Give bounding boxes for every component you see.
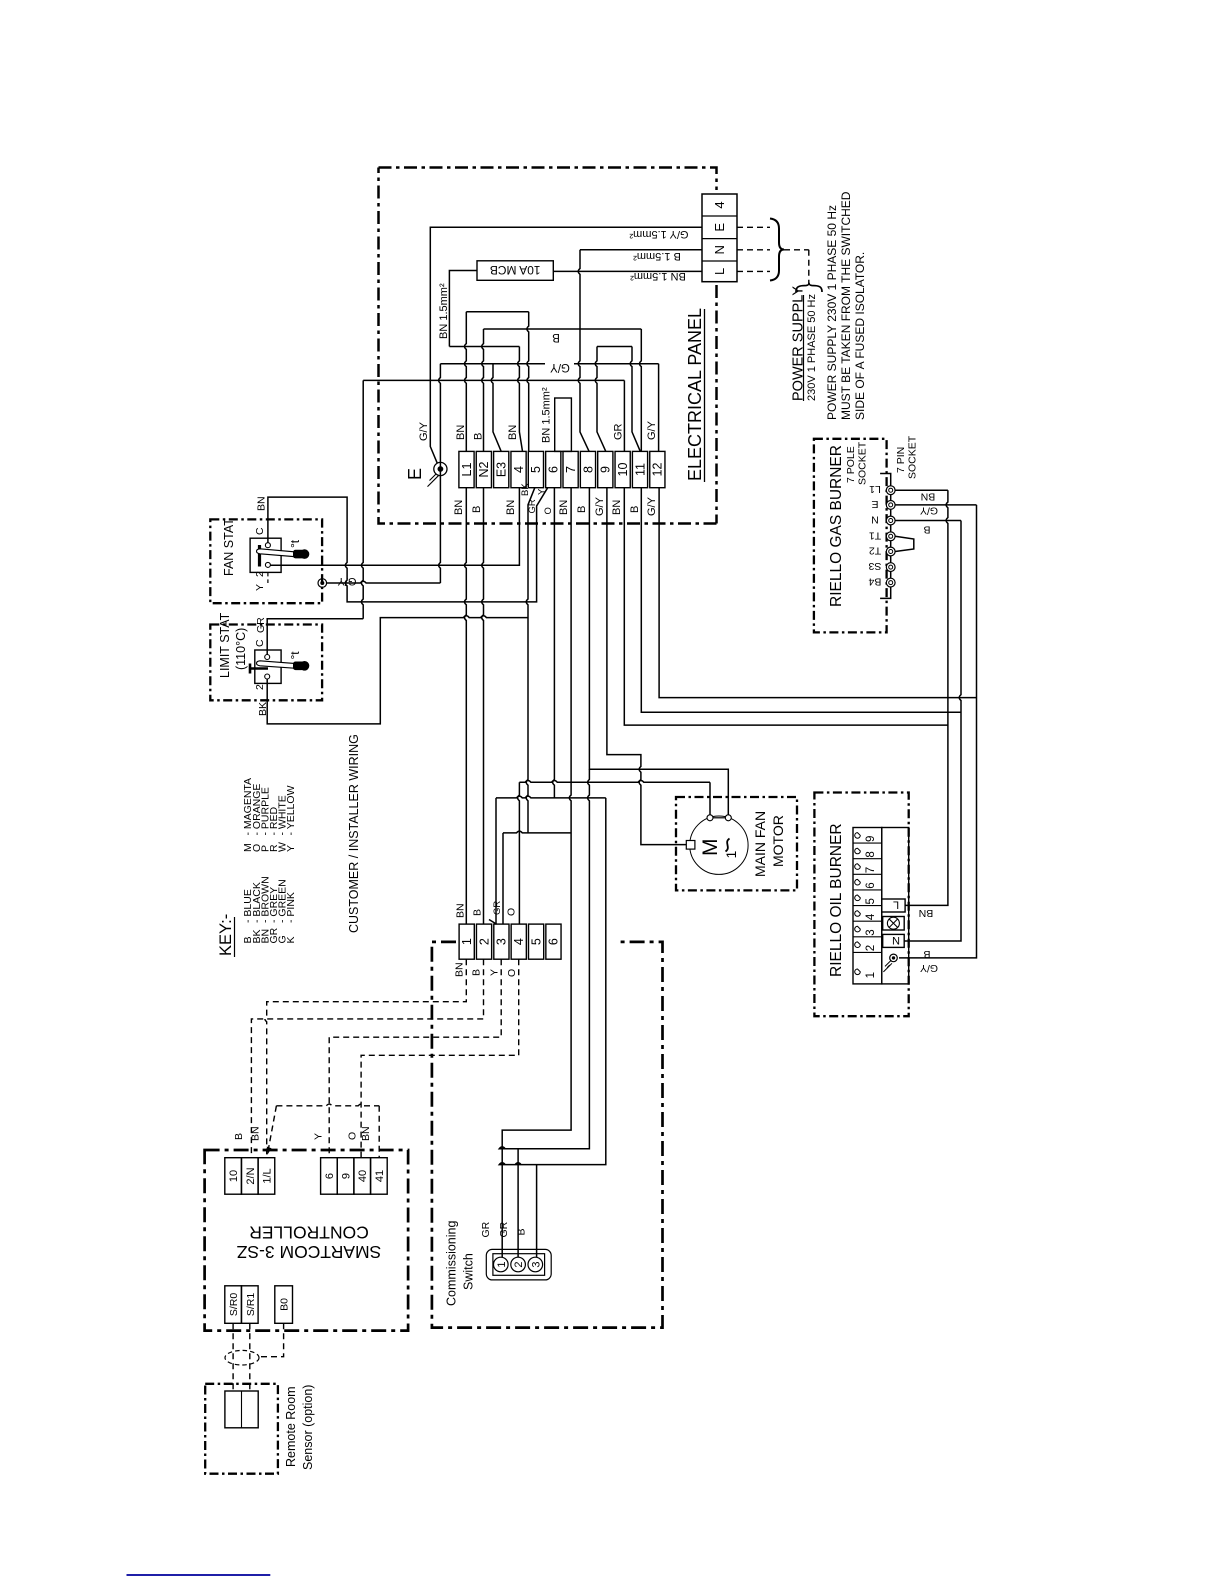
svg-text:10: 10 [616,463,630,477]
wire N2 drop from bus B [482,329,484,451]
wire terminal 10 (BN) to gas burner L1 [624,488,948,725]
svg-text:BN: BN [360,1126,372,1141]
svg-text:B: B [233,1133,245,1140]
wire h1: FAN STAT terminal 2 to terminal 4 [268,488,520,566]
svg-text:BN 1.5mm²: BN 1.5mm² [438,283,450,339]
svg-text:°t: °t [288,651,302,660]
label G/Y on earth bus [545,360,574,374]
svg-text:BN: BN [454,962,466,977]
dashed wires S/R0 S/R1 to sensor [233,1323,250,1391]
wire terminal 8 branch to commissioning switch 2 [499,769,589,1257]
commissioning switch outer [486,1249,551,1280]
wire 12 drop from bus D [658,364,660,452]
bus B neutral (N2 to 11) [484,328,642,330]
wire gas E to oil earth (G/Y vertical) [899,505,977,958]
svg-text:8: 8 [581,466,595,473]
svg-text:1: 1 [496,1261,508,1267]
wire 11 second drop from bus C right [630,347,640,452]
earth hatching [428,474,439,487]
fan stat lever and knob [257,549,295,557]
dashed wire block3 Y to controller 6 [329,959,501,1157]
dashed supply stubs from L N E [737,227,770,271]
svg-text:B0: B0 [279,1298,291,1311]
wire MCB to bus C (BN 1.5mm2) [449,271,477,347]
limit stat thermostat body [255,650,281,683]
electrical panel enclosure (dash-dot border) [379,168,717,524]
svg-text:B 1.5mm²: B 1.5mm² [633,250,681,262]
svg-text:O: O [347,1132,359,1140]
oil burner lamp cell [883,917,905,931]
svg-text:ELECTRICAL PANEL: ELECTRICAL PANEL [685,308,705,481]
svg-text:FAN STAT: FAN STAT [222,518,236,576]
svg-text:BN: BN [453,500,465,515]
svg-text:BK: BK [520,483,531,496]
underline POWER SUPPLY [803,295,805,401]
svg-text:2/N: 2/N [245,1167,257,1184]
controller terminal B0 [275,1286,293,1324]
svg-text:12: 12 [651,463,665,477]
svg-text:T1: T1 [869,529,881,541]
svg-text:1: 1 [460,938,474,945]
svg-text:BN: BN [256,496,268,511]
wire N-feed (B 1.5mm2) from terminal N to neutral bus and terminal 8 [578,250,589,452]
dashed wire block4 O to controller 40 [361,959,519,1157]
motor terminal 1 [707,815,713,821]
svg-text:1: 1 [865,972,877,978]
bus C right (8 to 11) [597,346,632,348]
svg-text:7 PIN: 7 PIN [895,447,907,473]
svg-text:MOTOR: MOTOR [770,815,786,867]
wire gas L1 to oil L (BN vertical) [905,490,948,905]
wire L1 drop below strip [465,488,467,924]
svg-text:LIMIT STAT: LIMIT STAT [218,612,232,678]
svg-text:B4: B4 [868,576,881,588]
svg-text:BN 1.5mm²: BN 1.5mm² [630,270,686,282]
svg-text:41: 41 [374,1170,386,1182]
svg-text:4: 4 [512,466,526,473]
fan stat thermostat body [250,538,281,572]
svg-text:Commissioning: Commissioning [445,1221,459,1306]
wire run y798 to block 3 and commissioning switch 3 [496,796,606,798]
earth node E (circle) [434,462,447,475]
limit stat reset bar [250,664,268,674]
wire E-feed from terminal E to earth point [430,227,702,463]
terminal strip L1 N2 E3 4-12 (panel) [459,451,474,487]
svg-text:7: 7 [564,466,578,473]
svg-text:2: 2 [254,684,266,690]
svg-text:SMARTCOM 3-SZ: SMARTCOM 3-SZ [236,1242,381,1262]
svg-text:B: B [629,506,641,513]
svg-text:RIELLO GAS BURNER: RIELLO GAS BURNER [828,445,845,607]
commissioning switch contacts 1 2 3 [494,1257,509,1272]
motor terminal 2 [725,815,731,821]
svg-text:B: B [576,506,588,513]
commissioning enclosure (dash-dot) [432,942,663,1328]
wire LIMIT STAT C to bus E via h4a [267,619,363,655]
wire run y782 terminal block 4 feed and motor [519,781,710,783]
svg-text:7 POLE: 7 POLE [845,446,857,483]
controller terminals 6 9 40 41 [321,1158,338,1195]
LIMIT STAT enclosure [210,625,322,701]
svg-text:B: B [923,948,930,960]
RIELLO GAS BURNER enclosure [814,439,887,633]
svg-text:L: L [893,899,899,911]
svg-text:B: B [472,909,484,916]
svg-text:S/R0: S/R0 [228,1293,240,1317]
svg-text:Y: Y [537,488,548,495]
cable grommet ellipse [225,1350,259,1365]
RIELLO OIL BURNER enclosure [814,793,908,1017]
svg-text:G/Y: G/Y [646,496,658,516]
bus D earth (E3 bus) [440,363,658,365]
svg-text:GR: GR [527,499,538,513]
svg-text:G/Y: G/Y [920,505,938,517]
wire BK from terminal 5 [526,488,535,833]
svg-text:3: 3 [530,1261,542,1267]
svg-text:CUSTOMER / INSTALLER WIRING: CUSTOMER / INSTALLER WIRING [347,734,361,933]
svg-text:BN: BN [919,907,934,919]
svg-text:GR: GR [498,1221,510,1237]
wire 5 drop from bus A [527,312,529,452]
svg-text:6: 6 [865,882,877,888]
brace gathering supply conductors [770,219,784,281]
svg-text:SOCKET: SOCKET [907,435,919,479]
svg-text:E: E [712,223,727,232]
dashed wire block1 BN to controller 1/L [265,959,466,1157]
svg-text:- YELLOW: - YELLOW [285,785,297,835]
MAIN FAN MOTOR enclosure [676,797,797,890]
limit stat lever and knob [257,661,295,668]
svg-text:10A MCB: 10A MCB [490,263,541,277]
oil burner terminal strip 1-9 [853,828,882,984]
svg-text:BN 1.5mm²: BN 1.5mm² [541,387,553,443]
svg-text:BN: BN [455,903,467,918]
svg-text:G/Y: G/Y [418,421,430,441]
svg-text:L1: L1 [869,483,881,495]
fan stat bimetal bar [258,545,261,567]
wire terminal 11 (B) to gas burner N [641,488,961,713]
fan stat contact C [265,543,270,548]
wire L-feed (BN 1.5mm2) from terminal L to MCB [553,270,702,272]
svg-text:BN: BN [250,1126,262,1141]
svg-text:(110°C): (110°C) [234,628,248,670]
wire run y833 BK to block 3 [503,831,571,833]
underline KEY [234,917,236,957]
oil burner N cell [883,934,905,947]
svg-text:9: 9 [599,466,613,473]
svg-text:230V 1 PHASE 50 Hz: 230V 1 PHASE 50 Hz [806,294,818,401]
svg-text:10: 10 [228,1170,240,1182]
svg-text:S/R1: S/R1 [245,1293,257,1317]
svg-text:1: 1 [723,851,739,859]
svg-text:°t: °t [288,539,302,548]
circuit breaker 10A MCB [477,261,553,281]
wire 4 drop from bus C [518,347,523,452]
limit stat contact C [265,655,270,660]
svg-text:B: B [473,433,485,440]
wire terminal 12 (G/Y) to gas burner E [659,488,976,698]
wire 11 drop from bus B [640,329,642,451]
svg-text:MUST BE TAKEN FROM THE SWITCHE: MUST BE TAKEN FROM THE SWITCHED [839,191,853,420]
svg-text:5: 5 [865,898,877,904]
svg-text:E: E [871,498,878,510]
svg-text:Y: Y [313,1133,325,1140]
svg-text:G/Y 1.5mm²: G/Y 1.5mm² [629,228,688,240]
svg-text:B: B [516,1228,528,1235]
svg-text:O: O [543,507,554,514]
svg-text:2: 2 [477,938,491,945]
wire earth vertical through earth node to G/Y junction [439,364,441,583]
svg-text:B: B [552,331,560,343]
bus E (to 10) [363,379,624,381]
svg-text:N2: N2 [477,461,491,477]
svg-text:BN: BN [455,425,467,440]
controller terminals 10 2/N 1/L [225,1158,242,1195]
svg-text:G/Y: G/Y [550,361,570,373]
footer rule (blue) [127,1574,271,1576]
svg-text:3: 3 [495,938,509,945]
wire gas N to oil N (B vertical) [904,521,961,942]
bus C left (MCB to 4) [449,346,519,348]
svg-text:S3: S3 [868,560,881,572]
svg-text:Remote Room: Remote Room [284,1386,298,1467]
wire terminal 8 drop (B) to motor [589,488,728,815]
svg-text:6: 6 [547,938,561,945]
svg-text:3: 3 [865,929,877,935]
svg-text:SIDE OF A FUSED ISOLATOR.: SIDE OF A FUSED ISOLATOR. [853,252,867,420]
svg-text:POWER SUPPLY 230V 1 PHASE 50 H: POWER SUPPLY 230V 1 PHASE 50 Hz [825,205,839,420]
svg-text:MAIN FAN: MAIN FAN [752,811,768,877]
svg-text:B: B [923,524,930,536]
svg-text:SOCKET: SOCKET [857,441,869,485]
svg-text:E: E [405,468,425,480]
svg-text:C: C [254,527,266,535]
svg-text:4: 4 [865,913,877,920]
svg-text:KEY:-: KEY:- [217,914,235,956]
controller terminals S/R0 S/R1 [225,1286,242,1324]
fan stat probe dashes [267,572,269,583]
wire gas L1 pin (BN) [895,489,948,491]
wire terminal 9 drop (G/Y) to motor frame [607,488,686,845]
svg-text:N: N [712,245,727,254]
wire E3 drop from bus D [491,364,501,452]
dashed link 1/L to 41 (BN) [269,1104,380,1158]
svg-text:Y: Y [489,969,501,976]
svg-text:C: C [254,639,266,647]
svg-text:N: N [871,514,879,526]
motor frame terminal square [686,841,695,850]
svg-text:9: 9 [865,836,877,842]
svg-text:4: 4 [512,938,526,945]
dashed link from brace to power supply note [784,250,809,284]
svg-text:K: K [285,936,297,943]
motor M1 circle [690,816,748,874]
svg-text:5: 5 [529,466,543,473]
oil burner earth node [890,954,898,962]
svg-text:5: 5 [529,938,543,945]
svg-text:BN: BN [611,500,623,515]
svg-text:2: 2 [513,1261,525,1267]
svg-text:11: 11 [633,463,647,476]
wire Y/GR terminal 6 to FAN STAT C via h3 [268,488,548,602]
gas burner 7-pin socket pins [886,486,895,495]
svg-text:G/Y: G/Y [646,420,658,440]
svg-text:Y: Y [285,845,297,852]
svg-text:G/Y: G/Y [920,962,938,974]
svg-text:M: M [699,839,722,857]
wire gas E pin (G/Y) [895,504,976,506]
svg-text:9: 9 [341,1173,353,1179]
terminal block L N E 4 (supply entry) [702,194,737,282]
dashed wire block2 B to controller 2/N [251,959,483,1157]
svg-text:L1: L1 [460,463,474,477]
terminal block 1-6 (customer connections) [459,924,474,959]
svg-text:Sensor (option): Sensor (option) [301,1385,315,1470]
dashed wire B0 to cable [261,1323,284,1356]
svg-text:40: 40 [357,1170,369,1182]
wire terminal 7 drop (BN) [502,488,571,1258]
svg-text:GR: GR [480,1221,492,1237]
wire 10 drop from bus E [623,380,625,451]
svg-text:- PINK: - PINK [285,892,297,923]
FAN STAT enclosure [210,519,322,603]
wire L1 drop to bus A [465,312,467,452]
svg-text:Y: Y [254,584,266,591]
wire gas N pin (B) [895,520,961,522]
remote room sensor enclosure [205,1384,278,1474]
wire 9 drop from bus C right [595,347,606,452]
svg-text:CONTROLLER: CONTROLLER [249,1223,369,1243]
fan stat contact 2 [265,562,270,567]
svg-text:L: L [712,268,727,275]
SMARTCOM controller enclosure (dash-dot) [205,1150,409,1331]
bus A (L1 to 5) [466,311,528,313]
wire O from terminal 6 [553,488,555,798]
svg-text:BN: BN [505,500,517,515]
svg-text:RIELLO OIL BURNER: RIELLO OIL BURNER [828,823,845,977]
oil burner right column box [882,828,909,984]
small brace at POWER SUPPLY heading [796,283,822,292]
junction node G/Y at fan stat [318,579,327,588]
svg-text:6: 6 [547,466,561,473]
svg-text:1/L: 1/L [261,1168,273,1183]
svg-text:N: N [892,934,900,946]
svg-text:Switch: Switch [462,1253,476,1290]
svg-text:2: 2 [254,571,266,577]
svg-text:7: 7 [865,867,877,873]
svg-text:GR: GR [255,617,267,633]
svg-text:T2: T2 [869,545,881,557]
svg-text:O: O [506,969,518,977]
svg-text:B: B [471,969,483,976]
sensor terminal block [225,1391,258,1428]
svg-text:8: 8 [865,851,877,857]
svg-text:B: B [471,506,483,513]
underline for ELECTRICAL PANEL [704,309,706,482]
svg-text:G/Y: G/Y [594,496,606,516]
svg-text:4: 4 [712,201,727,208]
svg-text:6: 6 [324,1173,336,1179]
svg-text:BN: BN [921,491,936,503]
jumper T1-T2 [895,536,914,551]
svg-text:O: O [506,908,518,916]
svg-text:E3: E3 [495,462,509,477]
limit stat contact 2 [265,674,270,679]
wire LIMIT STAT 2 to BK wire via h4b [267,616,528,724]
oil burner L cell [882,899,905,912]
svg-text:2: 2 [865,945,877,951]
jumper link terminals 6-7 [555,398,572,451]
commissioning switch inner [493,1254,545,1276]
svg-text:GR: GR [492,901,503,915]
gas socket spine [880,474,891,599]
svg-text:BN: BN [507,425,519,440]
motor terminal link [713,817,725,819]
wire N2 drop below strip [482,488,484,924]
svg-text:BN: BN [558,500,570,515]
svg-text:GR: GR [613,423,625,440]
